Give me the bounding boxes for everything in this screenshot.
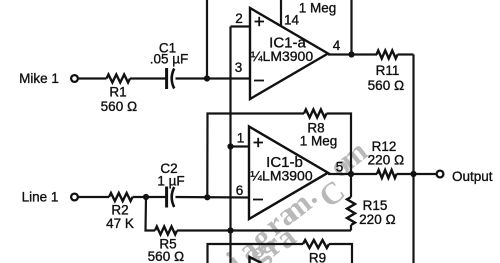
terminal Line 1 [71, 194, 78, 201]
node junction R2/C2/R5 [143, 194, 149, 200]
svg-text:560 Ω: 560 Ω [148, 249, 185, 263]
wire pin 1 [231, 145, 250, 147]
resistor R11 [377, 51, 398, 59]
svg-text:1 µF: 1 µF [157, 174, 184, 189]
wire [176, 77, 251, 79]
svg-text:R1: R1 [109, 85, 126, 100]
resistor R1 [107, 75, 131, 83]
svg-text:3: 3 [235, 60, 243, 75]
resistor R5 [155, 227, 177, 235]
wire [78, 196, 109, 198]
wire R12 to output terminal [397, 173, 437, 175]
wire [176, 196, 251, 199]
wire summing bus vertical [412, 55, 414, 263]
svg-text:560 Ω: 560 Ω [101, 99, 138, 114]
node junction C2/feedback R8 [204, 194, 210, 200]
svg-text:1: 1 [237, 131, 245, 146]
svg-text:¼LM3900: ¼LM3900 [250, 168, 312, 184]
op-amp U1 IC1-a 1/4 LM3900 [250, 8, 328, 99]
svg-text:R15: R15 [363, 198, 388, 213]
resistor R15 [347, 197, 355, 225]
minus input symbol IC1-b [253, 199, 263, 201]
capacitor C1 [167, 68, 175, 89]
node junction bus/output [410, 171, 416, 177]
minus input symbol IC1-a [254, 80, 264, 82]
svg-text:47 K: 47 K [106, 216, 134, 231]
resistor R2 [109, 193, 133, 201]
svg-text:220 Ω: 220 Ω [359, 212, 396, 227]
wire [78, 77, 106, 79]
wire R5 to R15 bottom [177, 229, 351, 231]
terminal Output [437, 171, 444, 178]
wire [133, 196, 166, 198]
wire R9 right down [329, 244, 352, 263]
wire output IC1-a [328, 53, 377, 55]
op-amp U2 IC1-b 1/4 LM3900 [249, 127, 328, 220]
node junction R5/bias bus [227, 227, 233, 233]
svg-text:1 Meg: 1 Meg [299, 1, 337, 16]
svg-text:5: 5 [336, 160, 344, 175]
wire feedback box R8 [207, 114, 304, 198]
op-amp U3 IC1-c (cut off) [250, 257, 262, 263]
wire output IC1-b [328, 173, 377, 175]
svg-text:4: 4 [333, 38, 341, 53]
svg-text:1 Meg: 1 Meg [300, 134, 338, 149]
watermark CircuitDiagram.Com [220, 133, 374, 263]
wire [130, 77, 166, 79]
wire R11 to bus [398, 53, 414, 55]
resistor R12 [377, 170, 396, 178]
svg-text:R11: R11 [376, 63, 400, 78]
wire R8 to output pin 5 [327, 114, 352, 175]
node output pin 5 [348, 171, 354, 177]
svg-text:.05 µF: .05 µF [150, 52, 189, 67]
node junction pin1/bias [227, 143, 233, 149]
wire bias bus vertical [229, 27, 231, 263]
wire pin 2 [231, 25, 251, 27]
svg-text:Output: Output [452, 169, 493, 184]
svg-text:2: 2 [235, 11, 243, 26]
wire feedback R7 right [350, 0, 352, 55]
node junction C1/feedback [204, 75, 210, 81]
plus input symbol IC1-a [255, 17, 265, 26]
resistor R8 [304, 110, 327, 118]
wire feedback R7 left (1 Meg, cut off at top) [206, 0, 208, 79]
terminal Mike 1 [71, 75, 78, 82]
node output pin 4 [348, 51, 354, 57]
svg-text:560 Ω: 560 Ω [368, 78, 405, 93]
capacitor C2 [167, 187, 175, 208]
wire pin5 node to R15 [350, 174, 352, 197]
svg-text:¼LM3900: ¼LM3900 [251, 48, 313, 64]
wire pin 14 (V+) [280, 0, 282, 27]
plus input symbol IC1-b [254, 138, 264, 147]
wire R2/C2 junction down [146, 197, 156, 231]
svg-text:R9: R9 [309, 251, 326, 263]
svg-text:Line 1: Line 1 [22, 190, 59, 205]
svg-text:6: 6 [236, 183, 244, 198]
svg-text:220 Ω: 220 Ω [368, 153, 405, 168]
svg-text:Mike 1: Mike 1 [19, 71, 59, 86]
wire R15 to bias rail [350, 225, 352, 231]
resistor R9 [303, 240, 329, 248]
svg-text:14: 14 [284, 13, 300, 28]
wire feedback box R9 [208, 244, 304, 263]
